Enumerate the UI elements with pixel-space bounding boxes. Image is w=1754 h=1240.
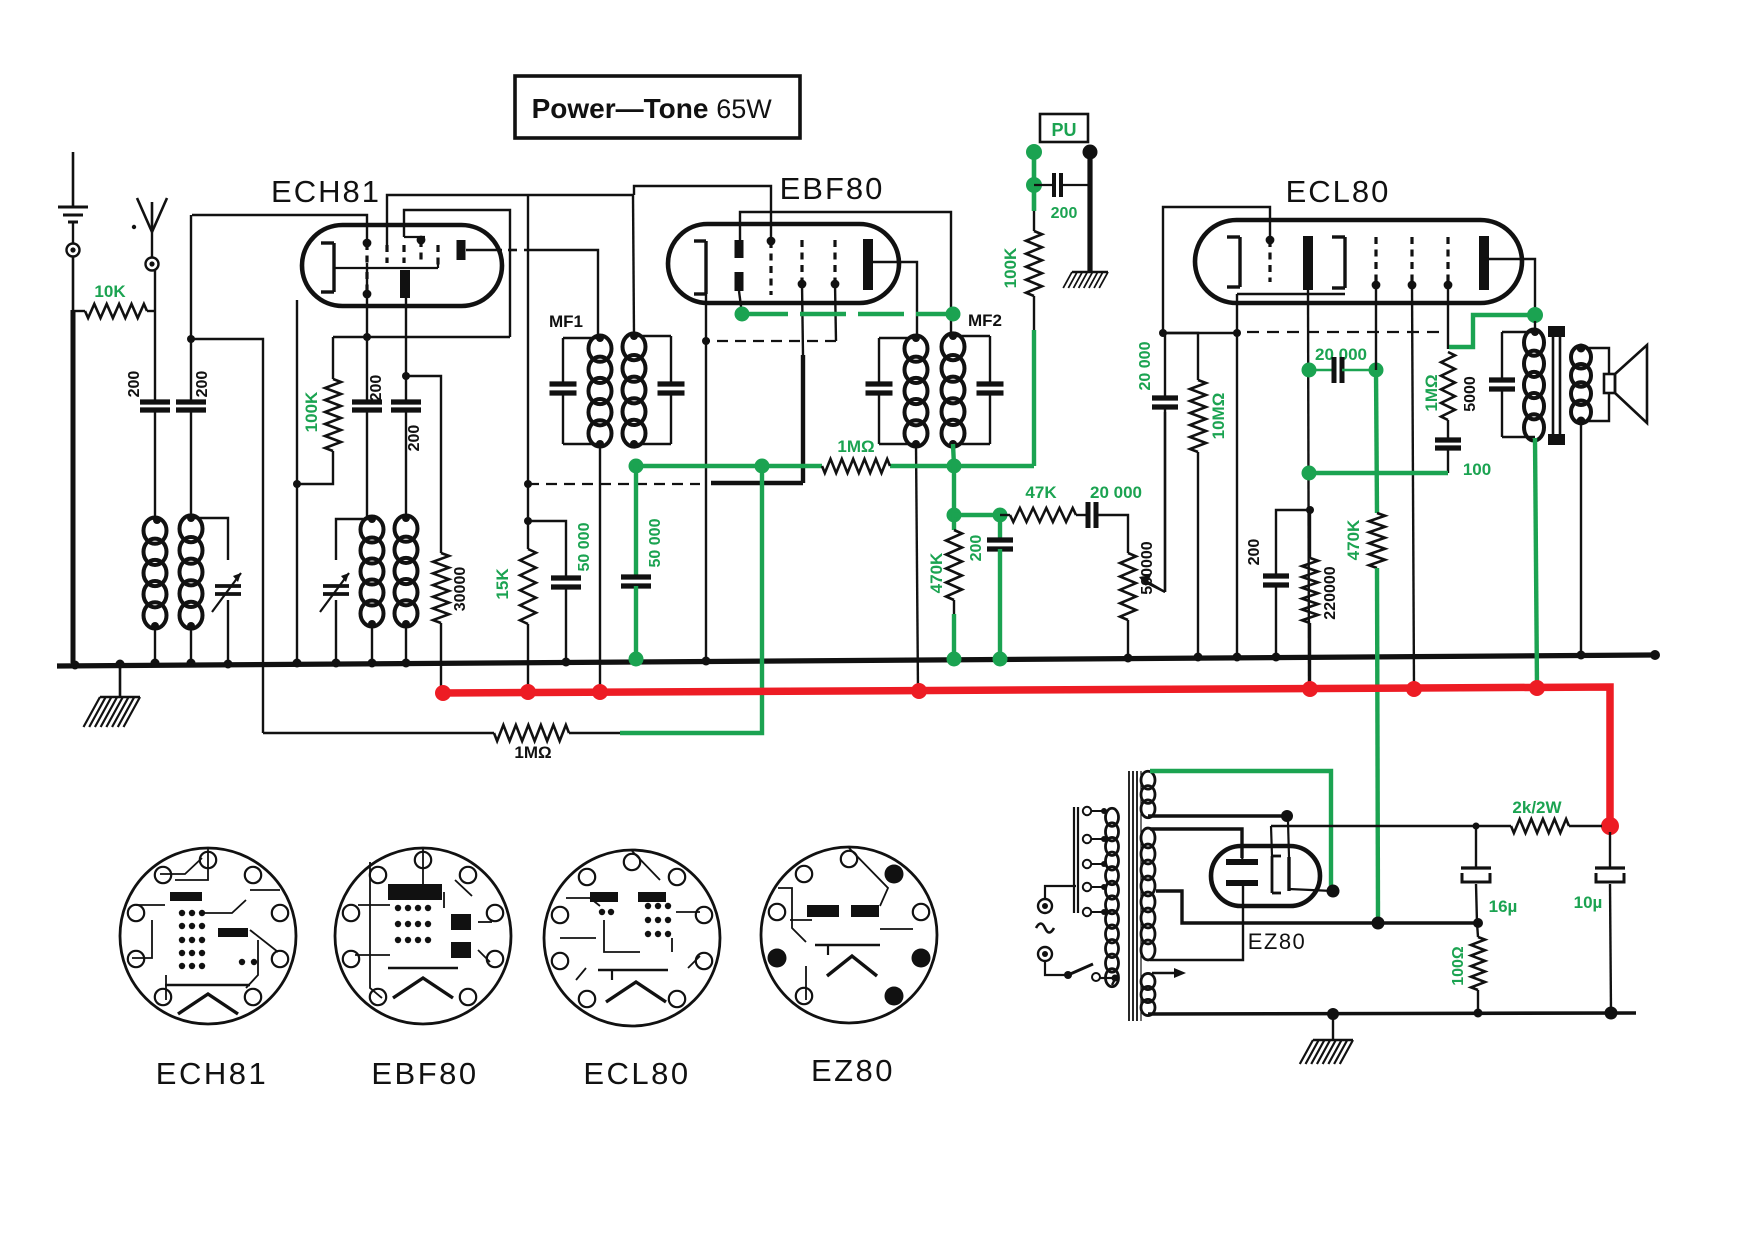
capacitor 50 000 (AF): [621, 466, 664, 667]
svg-text:EZ80: EZ80: [811, 1053, 895, 1088]
tube ECL80 envelope: [1195, 220, 1522, 303]
tube ECL80 label: [1286, 174, 1391, 209]
svg-text:100K: 100K: [1001, 247, 1020, 288]
mains ac symbol: [1036, 924, 1054, 933]
wire EBF80 diode top: [740, 212, 951, 336]
resistor 100Ω: [1450, 923, 1485, 1013]
wire EZ80 plate node: [1289, 885, 1340, 898]
wire EBF80 g1 to MF1: [634, 186, 771, 241]
inductor MF2 primary: [905, 334, 928, 448]
wire EZ80 anode HT: [1242, 858, 1243, 861]
ECL80 grid g2: [1372, 237, 1381, 289]
inductor antenna primary: [144, 516, 167, 663]
capacitor 200 (antenna series): [126, 371, 170, 520]
svg-text:10µ: 10µ: [1574, 893, 1603, 912]
ground (PSU): [1300, 1014, 1353, 1064]
resistor 10K: [73, 282, 155, 318]
tube EBF80 envelope: [668, 224, 899, 303]
socket EZ80: [761, 847, 937, 1023]
svg-text:PU: PU: [1051, 120, 1076, 140]
inductor mains primary: [1106, 808, 1119, 986]
EBF80 cathode: [694, 241, 706, 294]
capacitor 10µ: [1574, 832, 1625, 1013]
ECL80 internal cathode link: [1237, 293, 1345, 295]
svg-text:50 000: 50 000: [647, 518, 664, 567]
EZ80 plate bracket: [1272, 856, 1281, 893]
wire MF1 primary B+: [599, 444, 601, 692]
inductor HT winding top: [1141, 771, 1155, 817]
wire ECL80 dashed rail: [1247, 331, 1445, 333]
ECH81 cathode: [321, 243, 334, 292]
transformer MF2 label: [968, 311, 1002, 330]
socket ECH81 label: [156, 1056, 268, 1091]
resistor 470K (ECL80): [1344, 370, 1385, 922]
wire EZ80 cathode down: [1150, 886, 1243, 960]
wire speaker return: [1577, 421, 1586, 660]
ECL80 cathode 1: [1227, 237, 1240, 287]
ECL80 cathode 2: [1332, 237, 1345, 288]
svg-text:100Ω: 100Ω: [1450, 946, 1467, 986]
resistor 1MΩ (AF coupling): [822, 437, 890, 473]
svg-text:ECL80: ECL80: [583, 1056, 690, 1091]
svg-text:200: 200: [194, 371, 211, 398]
resistor 100K (ECH81 screen): [293, 337, 341, 488]
svg-text:EBF80: EBF80: [780, 171, 885, 206]
wire filtered B+ rail: [1271, 825, 1511, 827]
socket EZ80 label: [811, 1053, 895, 1088]
resistor 2k/2W: [1511, 798, 1602, 833]
wire HT main top: [1150, 829, 1242, 858]
svg-text:200: 200: [1246, 539, 1263, 566]
transformer OT core: [1548, 326, 1565, 445]
resistor 10MΩ: [1163, 333, 1228, 662]
wire osc grid feedback: [151, 659, 233, 669]
inductor osc secondary: [395, 514, 418, 668]
bottom rail: [1148, 1007, 1636, 1021]
wire MF2 secondary AF: [953, 444, 954, 466]
svg-text:MF1: MF1: [549, 312, 583, 331]
resistor 1MΩ (ECL80 grid): [1422, 352, 1455, 440]
svg-text:10K: 10K: [94, 282, 126, 301]
wire AF feedback green: [620, 466, 762, 733]
inductor HT winding main: [1141, 828, 1155, 960]
resistor 30000: [406, 376, 469, 691]
wire EZ80 plate1 feed: [1287, 816, 1289, 857]
ECL80 pentode plate: [1479, 236, 1489, 290]
EZ80 cathode bars: [1226, 859, 1258, 886]
tube EBF80 label: [780, 171, 885, 206]
ECH81 grid g1: [363, 239, 372, 263]
svg-text:65W: 65W: [716, 94, 772, 124]
capacitor 5000: [1462, 332, 1535, 437]
ECH81 grid g2: [385, 245, 388, 263]
wire B+ red line: [435, 680, 1619, 835]
wire g1 top: [192, 215, 367, 243]
inductor MF2 secondary: [942, 332, 965, 448]
capacitor 16µ: [1461, 823, 1517, 924]
socket ECL80: [544, 850, 720, 1026]
wire ECL80 triode plate down: [1302, 290, 1317, 689]
bus earth stub: [71, 660, 141, 728]
wire EBF80 g2 screen: [802, 284, 803, 483]
svg-text:ECH81: ECH81: [156, 1056, 268, 1091]
wire MF1 secondary to EBF80: [633, 195, 634, 336]
wire hexode plate to MF1: [466, 250, 598, 338]
resistor 100K (PU): [1001, 211, 1042, 466]
selector taps: [1083, 807, 1107, 916]
EBF80 grid g3: [831, 240, 840, 288]
antenna symbol: [132, 198, 167, 271]
wire EBF80 cathode down: [702, 294, 711, 666]
socket EBF80 label: [371, 1056, 478, 1091]
ECH81 grid g4: [417, 236, 426, 263]
wire AVC branch: [187, 335, 263, 733]
capacitor 200 (RF coupling): [176, 215, 211, 518]
ECL80 triode plate: [1303, 236, 1313, 290]
wire EZ80 plate2 feed: [1271, 826, 1272, 856]
wire screen rail: [333, 333, 510, 341]
svg-text:30000: 30000: [452, 567, 469, 612]
svg-text:15K: 15K: [493, 568, 512, 600]
svg-text:2k/2W: 2k/2W: [1512, 798, 1562, 817]
node PU hot: [1026, 144, 1042, 160]
wire ECL80 g2 down: [1375, 285, 1377, 370]
capacitor 200 (PU): [1034, 173, 1090, 222]
ECH81 internal mid wire: [334, 263, 438, 268]
wire screen feed: [524, 195, 532, 525]
ECL80 grid g3: [1408, 237, 1417, 289]
heater arrow: [1152, 968, 1186, 978]
resistor 15K: [493, 484, 536, 692]
svg-text:200: 200: [126, 371, 143, 398]
wire HT top green: [1150, 771, 1331, 888]
capacitor 200 (RF filter): [954, 508, 1013, 667]
svg-text:16µ: 16µ: [1489, 897, 1518, 916]
mains terminal N: [1038, 947, 1066, 975]
svg-text:EZ80: EZ80: [1248, 929, 1307, 954]
wire PU ground post: [1063, 158, 1108, 288]
EBF80 diode plates: [735, 240, 744, 291]
svg-text:Power—Tone: Power—Tone: [532, 93, 709, 124]
wire HT tap B+: [1156, 891, 1483, 930]
capacitor 200 (osc plate): [391, 298, 423, 518]
svg-text:EBF80: EBF80: [371, 1056, 478, 1091]
svg-text:220000: 220000: [1322, 566, 1339, 619]
EZ80 plate bar: [1287, 857, 1290, 891]
wire AF green rail: [629, 459, 1035, 474]
wire green to pentode grid: [1449, 315, 1536, 347]
inductor MF1 secondary: [623, 332, 646, 448]
transformer MF1 label: [549, 312, 583, 331]
svg-text:200: 200: [368, 375, 385, 402]
connector PU box: [1040, 114, 1088, 142]
ECH81 grid g5: [436, 245, 439, 266]
wire ECL80 cathode down: [1159, 294, 1242, 662]
capacitor 200 (osc grid): [352, 263, 385, 519]
tube ECH81 envelope: [302, 225, 502, 306]
tube EZ80 envelope: [1211, 846, 1320, 906]
svg-text:ECL80: ECL80: [1286, 174, 1391, 209]
svg-text:47K: 47K: [1025, 483, 1057, 502]
svg-text:20 000: 20 000: [1137, 341, 1154, 390]
inductor OT primary: [1524, 329, 1544, 440]
ECL80 grid g4: [1444, 237, 1453, 289]
wire antenna down: [154, 270, 156, 400]
transformer mains core: [1129, 771, 1141, 1021]
svg-text:10MΩ: 10MΩ: [1209, 393, 1228, 440]
svg-text:470K: 470K: [927, 552, 946, 593]
svg-text:5000: 5000: [1462, 376, 1479, 412]
wire ECL80 g3 down: [1412, 285, 1414, 689]
mains terminal L: [1038, 886, 1076, 913]
wire green 100 line: [1309, 471, 1448, 475]
inductor antenna secondary: [180, 514, 203, 663]
wire g2 top: [387, 195, 633, 245]
svg-text:470K: 470K: [1344, 519, 1363, 560]
inductor MF1 primary: [589, 334, 612, 448]
tube EZ80 label: [1248, 929, 1307, 954]
wire ECL80 plate out: [1484, 259, 1543, 323]
wire AVC dashed rail: [528, 483, 803, 484]
title box Power-Tone 65W: [515, 76, 800, 138]
EBF80 grid g1: [767, 237, 776, 295]
capacitor MF2 primary: [866, 338, 917, 444]
ECH81 triode plate: [400, 270, 410, 298]
svg-text:100: 100: [1463, 460, 1491, 479]
wire AVC green dashed: [735, 307, 961, 322]
resistor 220000: [1302, 510, 1339, 689]
ECH81 grid g3: [402, 245, 405, 263]
node PU gnd: [1083, 145, 1098, 160]
ECH81 internal grid link: [404, 237, 425, 244]
capacitor 20 000 (plate-grid): [1309, 345, 1384, 383]
svg-text:1MΩ: 1MΩ: [514, 743, 551, 762]
socket EBF80: [335, 848, 511, 1024]
wire ECL80 g4 down: [1447, 285, 1449, 349]
resistor 1MΩ (feedback): [263, 725, 620, 762]
variable capacitor (antenna tuning): [191, 518, 241, 664]
EBF80 pentode plate: [863, 239, 873, 290]
wire EBF80 g3 dashes: [706, 284, 836, 341]
wire EBF80 plate to MF2: [872, 262, 917, 338]
inductor heater winding: [1141, 973, 1155, 1015]
wire OT primary top: [1531, 321, 1539, 336]
svg-text:ECH81: ECH81: [271, 174, 381, 209]
wire MF2 primary B+: [916, 444, 918, 691]
wire EBF80 diode AVC: [739, 291, 742, 314]
svg-text:200: 200: [1051, 205, 1078, 222]
wire HT lower to diode: [1148, 810, 1293, 822]
capacitor MF1 primary: [550, 338, 599, 444]
svg-text:200: 200: [968, 535, 985, 562]
potentiometer 500000 (volume): [1120, 412, 1165, 663]
wire g4 top: [404, 210, 510, 337]
inductor OT secondary: [1571, 344, 1591, 426]
capacitor MF2 secondary: [953, 336, 1004, 444]
socket ECL80 label: [583, 1056, 690, 1091]
voltage selector bar: [1074, 807, 1078, 913]
ground bus: [57, 650, 1660, 666]
svg-text:20 000: 20 000: [1090, 483, 1142, 502]
svg-text:1MΩ: 1MΩ: [837, 437, 874, 456]
wire ECL80 grid top: [1163, 207, 1270, 333]
capacitor 20 000 (ECL80 fb): [1137, 333, 1178, 592]
socket ECH81: [120, 848, 296, 1024]
inductor osc primary: [361, 515, 384, 668]
tube ECH81 label: [271, 174, 381, 209]
ECH81 cathode drop: [293, 300, 302, 668]
ground (aerial earth) symbol: [58, 152, 88, 257]
resistor 47K: [1000, 483, 1076, 522]
svg-text:100K: 100K: [302, 391, 321, 432]
wire OT primary bottom green: [1535, 438, 1537, 687]
capacitor 200 (ECL80): [1246, 510, 1310, 662]
ECH81 hexode plate: [457, 240, 466, 260]
wire PU green: [1026, 159, 1042, 211]
svg-text:200: 200: [406, 425, 423, 452]
svg-text:1MΩ: 1MΩ: [1422, 374, 1441, 411]
EBF80 grid g2: [798, 240, 807, 288]
svg-text:MF2: MF2: [968, 311, 1002, 330]
capacitor 20 000 (AF couple): [1076, 483, 1142, 553]
svg-text:50 000: 50 000: [576, 522, 593, 571]
wire earth terminal down: [72, 256, 75, 663]
capacitor MF1 secondary: [634, 336, 685, 444]
capacitor 100: [1435, 440, 1491, 479]
ECH81 triode grid: [363, 272, 372, 298]
capacitor 50 000 (screen bypass): [528, 521, 593, 667]
ECL80 grid g1: [1266, 236, 1275, 282]
variable capacitor (osc tuning): [320, 519, 372, 668]
switch mains: [1064, 964, 1119, 982]
resistor 470K (det load): [927, 466, 962, 667]
speaker: [1581, 345, 1647, 423]
